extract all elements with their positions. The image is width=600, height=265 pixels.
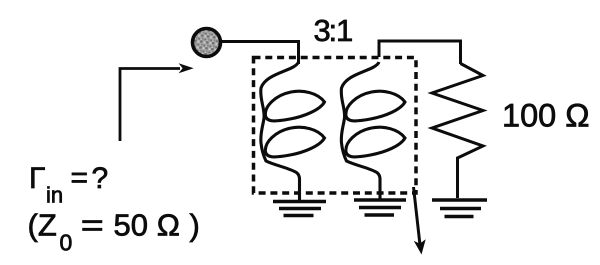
- svg-text:100 Ω: 100 Ω: [502, 98, 590, 134]
- svg-text:Ω: Ω: [157, 208, 180, 243]
- arrow input reflection (Gamma_in): [120, 63, 194, 141]
- port P1 input terminal circle: [193, 29, 221, 57]
- ground under secondary winding: [354, 200, 406, 215]
- svg-text:(Z: (Z: [28, 208, 57, 243]
- svg-text:in: in: [46, 183, 63, 208]
- svg-text:=: =: [71, 162, 89, 195]
- transformer T1 boundary dashed box: [254, 58, 417, 194]
- svg-text:=: =: [81, 208, 104, 243]
- svg-text:?: ?: [92, 162, 109, 195]
- label Gamma_in = ?: [29, 162, 108, 208]
- resistor R1 zigzag: [432, 64, 483, 199]
- arrow callout to transformer box: [414, 187, 426, 255]
- svg-text:50: 50: [114, 208, 148, 243]
- inductor L2 secondary winding: [341, 62, 405, 200]
- svg-text:1: 1: [336, 13, 353, 48]
- svg-text:): ): [190, 208, 200, 243]
- wire port to transformer primary: [221, 42, 299, 65]
- wire secondary to resistor: [379, 41, 461, 64]
- inductor L1 primary winding: [261, 62, 325, 200]
- ground under resistor: [432, 200, 487, 217]
- ground under primary winding: [273, 202, 326, 216]
- svg-text:0: 0: [60, 230, 73, 256]
- svg-text:Γ: Γ: [29, 162, 46, 195]
- label (Z0 = 50 ohm): [28, 208, 200, 256]
